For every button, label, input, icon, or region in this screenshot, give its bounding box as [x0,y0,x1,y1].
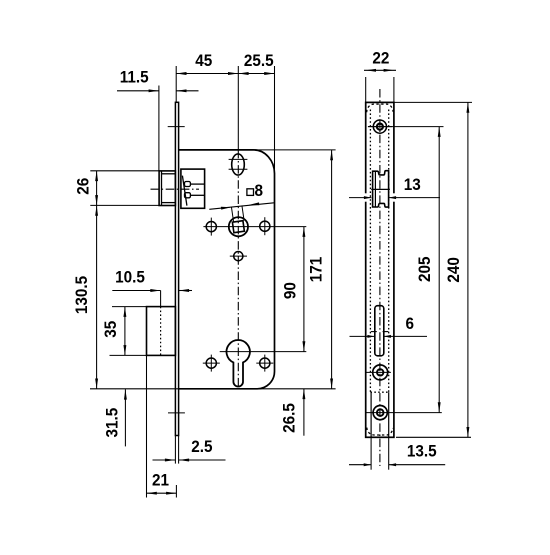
svg-text:45: 45 [195,51,212,70]
svg-text:26.5: 26.5 [280,403,299,433]
svg-text:25.5: 25.5 [244,51,274,70]
svg-text:26: 26 [74,178,93,195]
svg-text:35: 35 [101,321,120,338]
svg-text:21: 21 [152,471,169,490]
svg-text:31.5: 31.5 [103,408,122,438]
svg-text:13: 13 [404,175,421,194]
svg-text:6: 6 [406,314,415,333]
svg-text:90: 90 [281,282,300,299]
svg-text:13.5: 13.5 [407,442,437,461]
svg-text:8: 8 [255,181,264,200]
svg-text:205: 205 [415,257,434,283]
svg-text:171: 171 [307,257,326,283]
svg-text:240: 240 [444,257,463,283]
svg-text:130.5: 130.5 [72,276,91,314]
svg-text:11.5: 11.5 [120,68,149,87]
svg-text:2.5: 2.5 [191,437,212,456]
svg-text:22: 22 [372,49,389,68]
svg-text:10.5: 10.5 [115,268,145,287]
